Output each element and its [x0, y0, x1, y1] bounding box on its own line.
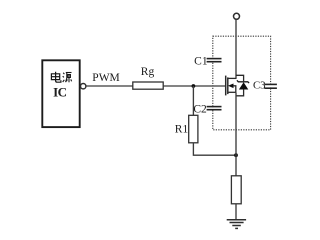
wire source: MOSFET down to load resistor: [235, 92, 237, 176]
capacitor C1 plates: [207, 59, 222, 62]
junction node gate / R1 tap: [192, 84, 196, 88]
IC U1 label 电 (drawn glyph): [51, 72, 61, 83]
IC U1 box (power supply IC): [42, 60, 79, 127]
MOSFET Q1 source stub: [228, 91, 236, 93]
svg-text:R1: R1: [175, 124, 189, 136]
resistor Rg: [133, 82, 163, 89]
white mask for C1 dielectric gap on dashed edge: [210, 60, 218, 61]
svg-text:IC: IC: [53, 84, 67, 99]
svg-text:C3: C3: [253, 79, 266, 91]
capacitor C3 plates: [264, 84, 277, 88]
pin terminal circle on IC PWM output: [81, 84, 86, 89]
white mask for C3 dielectric gap on dashed edge: [267, 86, 274, 88]
white mask for C2 dielectric gap on dashed edge: [210, 108, 218, 109]
wire Rg to MOSFET gate: [163, 85, 225, 87]
wire R1 bottom to source rail: [193, 143, 236, 155]
capacitor C2 plates: [207, 107, 222, 110]
resistor R2 load: [231, 176, 241, 204]
wire load resistor to ground: [235, 204, 237, 220]
MOSFET Q1 body diode bottom branch: [236, 89, 244, 95]
svg-text:C1: C1: [194, 55, 208, 67]
MOSFET Q1 body diode top branch: [236, 75, 244, 81]
svg-text:PWM: PWM: [92, 72, 119, 84]
resistor R1: [189, 115, 198, 143]
wire PWM: IC pin to Rg: [86, 85, 133, 87]
MOSFET Q1 body diode triangle: [239, 82, 248, 89]
dashed box around MOSFET (parasitic capacitances): [213, 36, 271, 130]
MOSFET Q1 gate plate: [225, 76, 227, 96]
svg-text:Rg: Rg: [141, 66, 155, 78]
MOSFET Q1 channel plate: [227, 77, 229, 94]
MOSFET Q1 drain stub: [228, 77, 236, 79]
ground symbol: [227, 220, 246, 229]
wire drain: terminal down to MOSFET: [235, 19, 237, 79]
terminal circle top (drain supply): [234, 13, 240, 19]
IC U1 label 源 (drawn glyph): [63, 73, 72, 83]
MOSFET Q1 body arrow (points to channel): [228, 84, 234, 89]
svg-text:C2: C2: [193, 103, 207, 115]
MOSFET Q1 body stub to source: [233, 86, 236, 93]
MOSFET Q1 body diode cathode bar with ticks: [237, 80, 249, 83]
junction node source / R1: [234, 153, 238, 157]
wire junction down to R1: [192, 86, 194, 115]
